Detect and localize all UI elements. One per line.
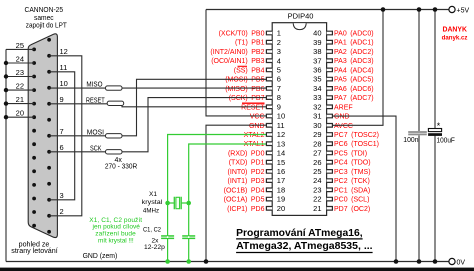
wire crystal left lead (green) [168,202,174,204]
junction GND pin31 rail [394,259,399,264]
svg-text:20: 20 [277,204,285,213]
svg-text:(SCK) PB7: (SCK) PB7 [229,95,265,102]
svg-text:32: 32 [313,102,321,111]
svg-text:23: 23 [313,185,321,194]
junction C2 gnd (green) [186,259,191,264]
wire LPT12-LPT2 loop [49,56,82,216]
svg-text:21: 21 [16,95,24,104]
svg-text:PA2 (ADC2): PA2 (ADC2) [334,49,374,56]
svg-text:PA5 (ADC5): PA5 (ADC5) [334,77,374,84]
overline on RESET [242,102,265,104]
junction on GND bus [4,115,8,119]
wire GND pin31 to 0V rail [333,116,396,261]
svg-text:29: 29 [313,130,321,139]
svg-text:36: 36 [313,66,321,75]
svg-text:5: 5 [277,66,281,75]
svg-text:38: 38 [313,47,321,56]
junction C1 gnd (green) [165,259,170,264]
junction AVCC rail [381,7,386,12]
svg-text:strany letování: strany letování [11,248,57,255]
svg-text:GND: GND [249,123,265,130]
svg-text:(MISO) PB6: (MISO) PB6 [225,86,264,93]
junction on GND bus [4,74,8,78]
wire RESET chip segment [122,105,266,107]
svg-text:PC0 (SCL): PC0 (SCL) [334,197,369,204]
wire LPT pin 21 to GND bus [6,103,34,105]
connector right pin row dots [47,38,51,234]
svg-text:39: 39 [313,38,321,47]
svg-text:40: 40 [313,29,321,38]
svg-text:danyk.cz: danyk.cz [442,34,468,41]
svg-text:DANYK: DANYK [443,24,468,33]
svg-text:12: 12 [277,130,285,139]
svg-text:(INT1) PD3: (INT1) PD3 [228,178,265,185]
svg-text:31: 31 [313,112,321,121]
svg-text:PC6 (TOSC1): PC6 (TOSC1) [334,141,379,148]
svg-text:17: 17 [277,176,285,185]
svg-text:18: 18 [277,185,285,194]
svg-text:XTAL2: XTAL2 [244,132,265,139]
capacitor C4 100uF electrolytic [428,129,442,136]
note X1,C1,C2 pouzit jen pokud... (green) [89,217,142,245]
overline on SS [238,65,248,67]
svg-text:2: 2 [277,38,281,47]
svg-text:21: 21 [313,204,321,213]
svg-text:25: 25 [313,167,321,176]
svg-text:PD7 (OC2): PD7 (OC2) [334,206,370,213]
terminal 0V [449,258,465,266]
svg-text:13: 13 [277,139,285,148]
svg-text:10: 10 [60,79,68,88]
svg-text:PC1 (SDA): PC1 (SDA) [334,187,370,194]
wire LPT pin 22 to GND bus [6,89,34,91]
wire VCC to +5V rail [206,10,266,116]
svg-text:14: 14 [277,149,285,158]
junction 100n gnd [417,259,422,264]
svg-text:15: 15 [277,158,285,167]
svg-text:9: 9 [60,95,64,104]
resistor R4 SCK [106,150,123,154]
svg-text:3: 3 [277,47,281,56]
svg-text:22: 22 [16,82,24,91]
svg-text:zapojit do LPT: zapojit do LPT [26,21,67,30]
svg-text:9: 9 [277,102,281,111]
wire +5V rail [206,9,449,11]
svg-text:AREF: AREF [334,104,353,111]
svg-text:Programování ATmega16,: Programování ATmega16, [236,227,363,239]
svg-text:PC3 (TMS): PC3 (TMS) [334,169,371,176]
wire GND chip pin11 to 0V rail [206,125,266,261]
wire SCK net [49,98,266,152]
svg-text:(ICP1) PD6: (ICP1) PD6 [227,206,264,213]
junction on GND bus [4,61,8,65]
svg-text:(OC1B) PD4: (OC1B) PD4 [224,187,265,194]
svg-text:7: 7 [60,127,64,136]
wire GND bus vertical [5,49,7,261]
capacitor C1 [161,235,174,239]
svg-text:(SS) PB4: (SS) PB4 [234,67,265,74]
op IC U1 ATmega PDIP40 body [272,23,326,216]
connector J1 CANNON-25 body [28,34,57,238]
svg-text:4MHz: 4MHz [143,208,159,215]
svg-text:34: 34 [313,84,321,93]
resistor R1 MISO [106,86,123,90]
svg-text:(T1) PB1: (T1) PB1 [235,40,265,47]
svg-text:6: 6 [277,75,281,84]
capacitor C3 100n [408,131,427,135]
svg-text:(XCK/T0) PB0: (XCK/T0) PB0 [219,31,265,38]
svg-text:12-22p: 12-22p [144,244,165,251]
svg-text:28: 28 [313,139,321,148]
IC pin boxes right [327,31,333,210]
junction 100uF rail [433,7,438,12]
svg-text:PA6 (ADC6): PA6 (ADC6) [334,86,374,93]
svg-text:PDIP40: PDIP40 [288,11,314,20]
svg-text:7: 7 [277,84,281,93]
wire crystal right lead (green) [182,202,189,204]
terminal +5V [449,6,470,14]
svg-text:PC2 (TCK): PC2 (TCK) [334,178,370,185]
svg-text:PC5 (TDI): PC5 (TDI) [334,150,367,157]
crystal X1 [174,197,181,209]
svg-text:X1: X1 [149,191,157,198]
resistor R3 MOSI [106,134,123,138]
wire 0V rail [6,261,449,263]
svg-text:24: 24 [16,54,24,63]
svg-text:PC4 (TDO): PC4 (TDO) [334,160,371,167]
junction on GND bus [4,88,8,92]
svg-text:35: 35 [313,75,321,84]
junction on GND bus [4,101,8,105]
svg-text:RESET: RESET [241,104,265,111]
junction crystal left [165,201,170,206]
svg-text:AVCC: AVCC [334,123,353,130]
svg-text:PA4 (ADC4): PA4 (ADC4) [334,67,374,74]
wire 100uF bottom [434,136,436,262]
svg-text:MISO: MISO [86,81,103,88]
svg-text:PA1 (ADC1): PA1 (ADC1) [334,40,374,47]
svg-text:PA0 (ADC0): PA0 (ADC0) [334,31,374,38]
svg-text:PC7 (TOSC2): PC7 (TOSC2) [334,132,379,139]
svg-text:(OC1A) PD5: (OC1A) PD5 [224,197,265,204]
svg-text:26: 26 [313,158,321,167]
svg-text:VCC: VCC [250,114,265,121]
wire XTAL1 net (green) [189,144,267,262]
svg-text:25: 25 [16,41,24,50]
svg-text:(RXD) PD0: (RXD) PD0 [228,150,265,157]
wire LPT pin 23 to GND bus [6,76,34,78]
svg-text:100uF: 100uF [437,137,455,144]
wire XTAL2 net (green) [168,135,267,262]
wire LPT11-LPT3 loop [49,72,75,200]
svg-text:6: 6 [60,143,64,152]
IC pin boxes left [266,31,272,210]
svg-text:11: 11 [60,63,68,72]
wire AVCC pin30 to +5V rail [333,10,383,126]
svg-text:(OC0/AIN1) PB3: (OC0/AIN1) PB3 [211,58,264,65]
svg-text:4: 4 [277,56,281,65]
svg-text:23: 23 [16,68,24,77]
svg-text:19: 19 [277,195,285,204]
wire RESET lpt segment [49,103,115,105]
wire 100n top [418,10,420,132]
wire LPT pin 24 to GND bus [6,62,34,64]
svg-text:11: 11 [277,121,285,130]
svg-text:24: 24 [313,176,321,185]
junction 100uF gnd [433,259,438,264]
svg-text:(MOSI) PB5: (MOSI) PB5 [225,77,264,84]
svg-text:1: 1 [277,29,281,38]
wire LPT pin 25 to GND bus [6,48,34,50]
svg-text:3: 3 [60,191,64,200]
junction GND chip rail [204,259,209,264]
svg-text:100n: 100n [403,137,418,144]
svg-text:GND (zem): GND (zem) [83,253,118,260]
svg-text:XTAL1: XTAL1 [244,141,265,148]
svg-text:270 - 330R: 270 - 330R [105,164,137,171]
svg-text:mít krystal !!!: mít krystal !!! [98,237,134,244]
wire MISO net [49,87,266,89]
svg-text:37: 37 [313,56,321,65]
svg-text:30: 30 [313,121,321,130]
svg-text:(TXD) PD1: (TXD) PD1 [229,160,265,167]
wire MOSI net [49,79,266,136]
resistor R2 RESET [107,101,124,105]
wire 100n bottom [418,135,420,261]
wire LPT pin 20 to GND bus [6,116,34,118]
svg-text:krystal: krystal [142,199,163,206]
svg-text:20: 20 [16,109,24,118]
svg-text:C1, C2: C1, C2 [143,227,161,234]
svg-text:0V: 0V [457,260,466,267]
svg-text:10: 10 [277,112,285,121]
svg-text:33: 33 [313,93,321,102]
svg-text:16: 16 [277,167,285,176]
svg-text:ATmega32, ATmega8535, ...: ATmega32, ATmega8535, ... [236,240,373,252]
svg-text:8: 8 [277,93,281,102]
bottom edge bar [0,268,474,271]
svg-text:(INT2/AIN0) PB2: (INT2/AIN0) PB2 [210,49,264,56]
svg-text:12: 12 [60,47,68,56]
svg-text:PA7 (ADC7): PA7 (ADC7) [334,95,374,102]
svg-text:PA3 (ADC3): PA3 (ADC3) [334,58,374,65]
junction crystal right [186,201,191,206]
connector left pin row dots [32,48,36,228]
svg-text:22: 22 [313,195,321,204]
wire 100uF top [434,10,436,129]
capacitor C2 [182,235,195,239]
junction 100n rail [417,7,422,12]
svg-text:27: 27 [313,149,321,158]
svg-text:GND: GND [334,114,350,121]
svg-text:2: 2 [60,207,64,216]
svg-text:+5V: +5V [457,7,470,14]
svg-text:(INT0) PD2: (INT0) PD2 [228,169,265,176]
